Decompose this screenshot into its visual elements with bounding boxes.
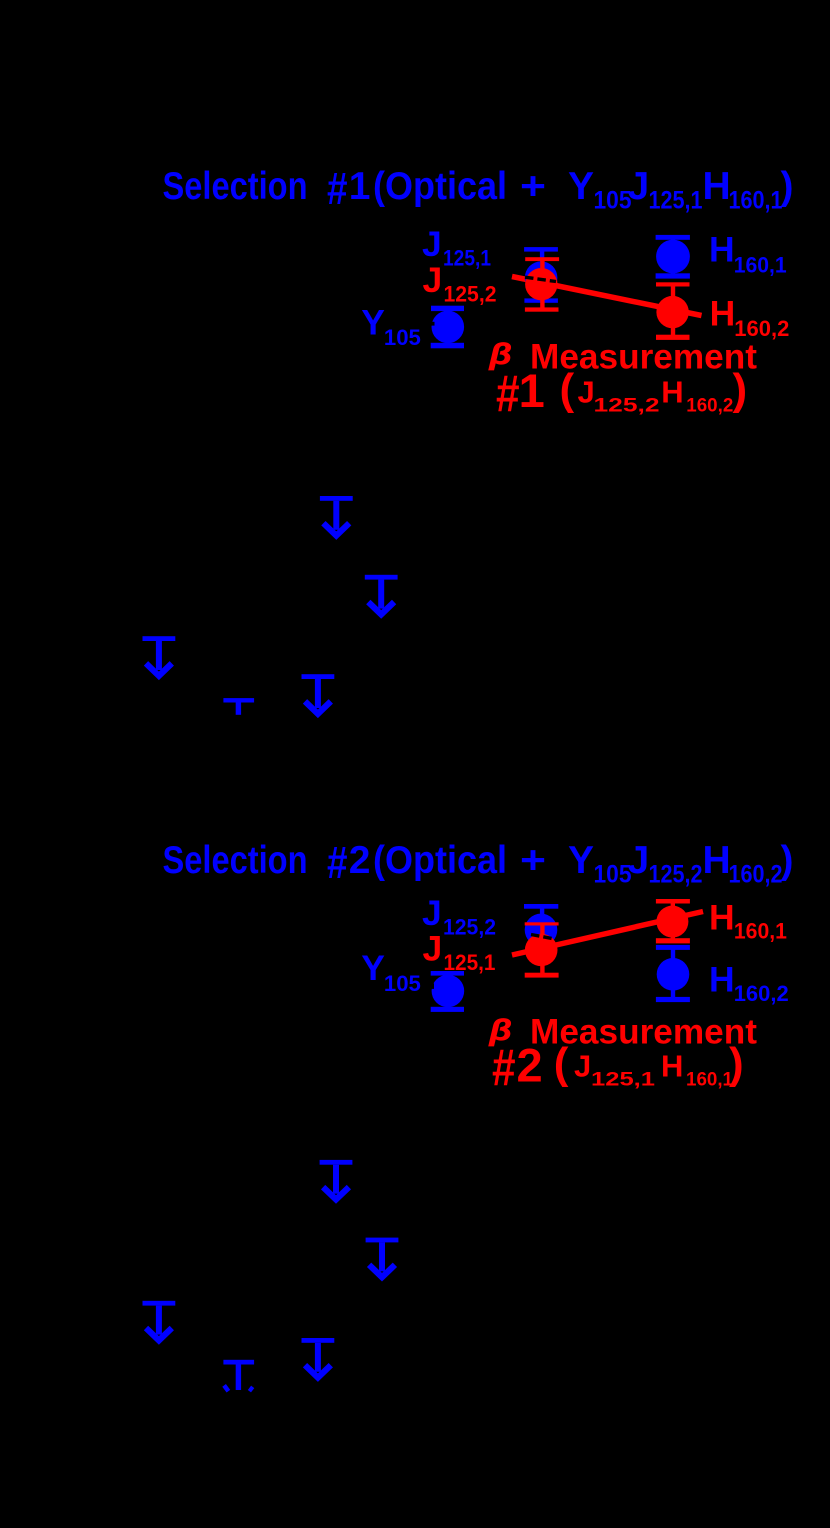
svg-text:160,1: 160,1: [734, 252, 787, 277]
svg-text:125,2: 125,2: [444, 281, 497, 306]
svg-text:J: J: [422, 893, 442, 933]
svg-text:160,1: 160,1: [729, 187, 783, 215]
svg-text:125,1: 125,1: [591, 1069, 655, 1091]
svg-text:J: J: [578, 374, 595, 409]
svg-text:Selection: Selection: [163, 165, 308, 208]
svg-text:105: 105: [384, 325, 421, 350]
svg-text:): ): [781, 839, 794, 882]
svg-text:125,2: 125,2: [594, 395, 660, 417]
svg-text:160,2: 160,2: [729, 861, 783, 889]
svg-text:#: #: [327, 164, 348, 214]
svg-text:H: H: [703, 839, 731, 882]
svg-text:105: 105: [594, 861, 632, 889]
svg-text:160,2: 160,2: [734, 981, 789, 1006]
svg-text:105: 105: [594, 187, 632, 215]
svg-text:J: J: [423, 929, 443, 969]
svg-text:J: J: [628, 165, 650, 208]
svg-text:#: #: [492, 1039, 516, 1097]
svg-text:J: J: [628, 839, 650, 882]
svg-text:(Optical: (Optical: [373, 165, 507, 208]
svg-text:J: J: [574, 1048, 591, 1083]
svg-text:H: H: [709, 230, 735, 270]
svg-text:125,2: 125,2: [649, 861, 703, 889]
svg-text:J: J: [423, 260, 443, 300]
svg-text:H: H: [703, 165, 731, 208]
svg-text:Y: Y: [568, 165, 594, 208]
svg-text:+: +: [520, 839, 546, 882]
svg-text:H: H: [709, 897, 735, 937]
svg-text:J: J: [422, 224, 442, 264]
svg-text:125,1: 125,1: [443, 245, 491, 270]
svg-text:): ): [729, 1039, 744, 1088]
svg-text:2: 2: [517, 1039, 543, 1092]
svg-text:+: +: [520, 165, 546, 208]
svg-text:Y: Y: [361, 948, 385, 988]
svg-text:1: 1: [349, 165, 371, 208]
svg-text:(Optical: (Optical: [373, 839, 507, 882]
svg-text:160,1: 160,1: [686, 1069, 733, 1091]
svg-text:1: 1: [519, 364, 545, 417]
svg-text:H: H: [661, 1048, 683, 1083]
svg-text:Y: Y: [361, 302, 385, 342]
svg-text:125,2: 125,2: [443, 914, 496, 939]
svg-text:105: 105: [384, 971, 421, 996]
svg-text:Selection: Selection: [163, 839, 308, 882]
svg-text:#: #: [496, 365, 520, 423]
svg-text:160,1: 160,1: [734, 919, 787, 944]
svg-text:#: #: [327, 838, 348, 888]
svg-text:H: H: [709, 959, 735, 999]
svg-text:Y: Y: [568, 839, 594, 882]
svg-text:(: (: [560, 365, 575, 414]
svg-text:): ): [733, 365, 748, 414]
svg-text:2: 2: [349, 839, 371, 882]
svg-text:160,2: 160,2: [686, 395, 733, 417]
svg-text:): ): [781, 165, 794, 208]
svg-text:125,1: 125,1: [649, 187, 703, 215]
svg-text:H: H: [710, 294, 736, 334]
svg-text:(: (: [554, 1039, 569, 1088]
svg-text:H: H: [661, 374, 683, 409]
